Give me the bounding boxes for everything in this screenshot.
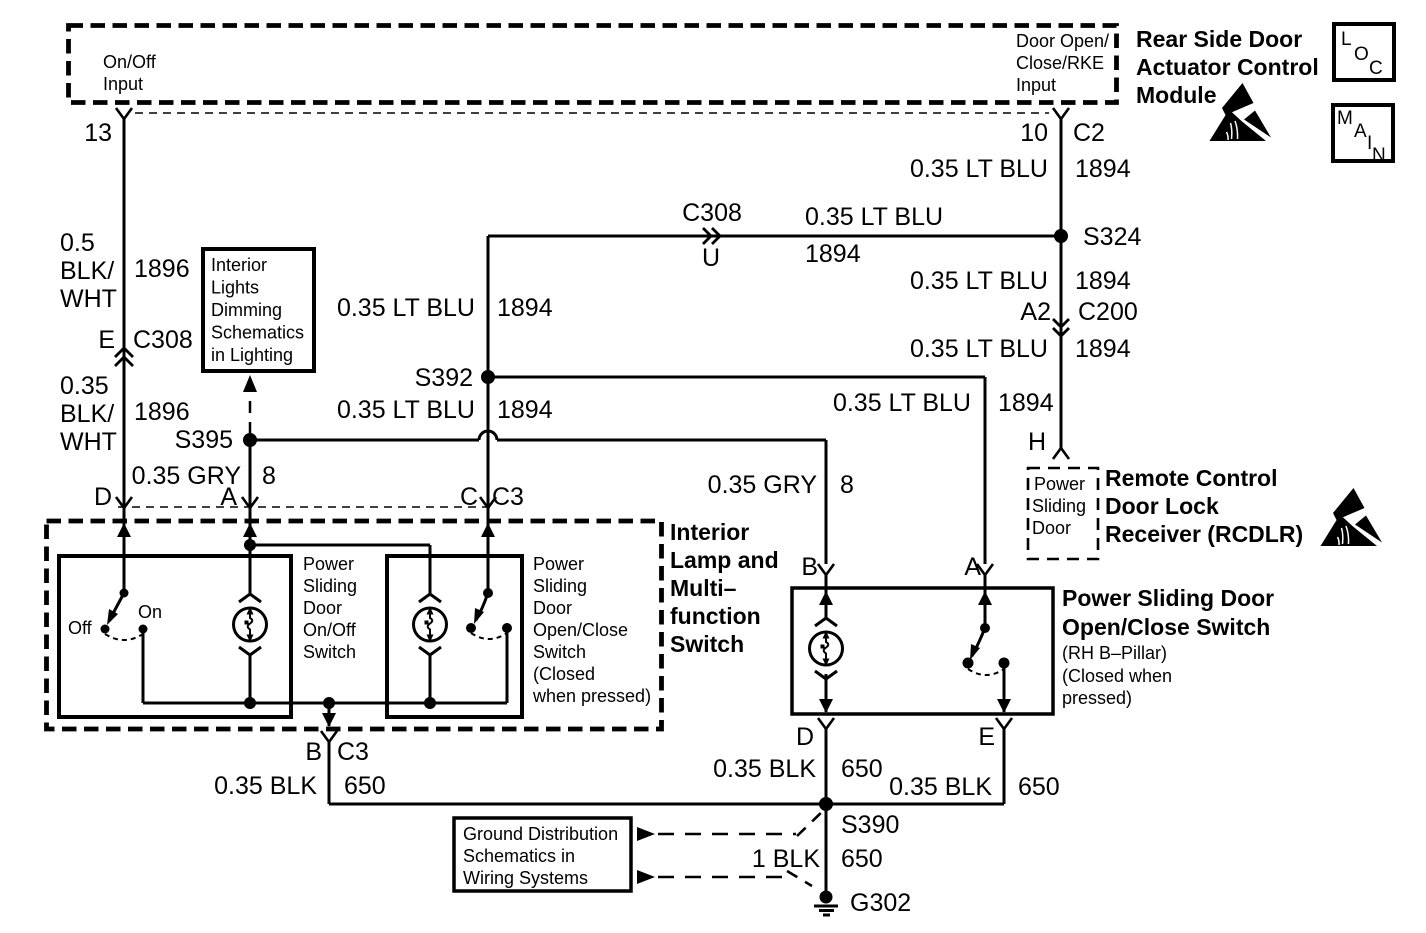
svg-text:0.35: 0.35 bbox=[60, 372, 109, 400]
svg-text:0.35 BLK: 0.35 BLK bbox=[713, 755, 816, 783]
svg-text:S390: S390 bbox=[841, 811, 899, 839]
svg-text:Receiver (RCDLR): Receiver (RCDLR) bbox=[1105, 521, 1303, 547]
svg-text:1894: 1894 bbox=[497, 294, 553, 322]
svg-text:Open/Close: Open/Close bbox=[533, 620, 628, 640]
svg-text:1896: 1896 bbox=[134, 255, 190, 283]
svg-text:On: On bbox=[138, 602, 162, 622]
svg-text:0.35 LT BLU: 0.35 LT BLU bbox=[805, 203, 943, 231]
svg-text:Door: Door bbox=[1032, 518, 1071, 538]
svg-text:0.35 LT BLU: 0.35 LT BLU bbox=[910, 155, 1048, 183]
svg-text:Ground Distribution: Ground Distribution bbox=[463, 824, 618, 844]
svg-text:O: O bbox=[1354, 44, 1369, 65]
svg-text:Switch: Switch bbox=[533, 642, 586, 662]
svg-text:C200: C200 bbox=[1078, 298, 1138, 326]
svg-text:1894: 1894 bbox=[1075, 335, 1131, 363]
svg-text:Door Lock: Door Lock bbox=[1105, 493, 1219, 519]
svg-text:WHT: WHT bbox=[60, 285, 117, 313]
svg-text:Interior: Interior bbox=[211, 255, 267, 275]
svg-text:C308: C308 bbox=[682, 199, 742, 227]
svg-text:0.35 LT BLU: 0.35 LT BLU bbox=[337, 294, 475, 322]
svg-text:Lamp and: Lamp and bbox=[670, 547, 779, 573]
svg-text:Power: Power bbox=[1034, 474, 1085, 494]
svg-text:650: 650 bbox=[841, 845, 883, 873]
svg-text:0.35 LT BLU: 0.35 LT BLU bbox=[910, 335, 1048, 363]
svg-text:1 BLK: 1 BLK bbox=[752, 845, 820, 873]
svg-text:Remote Control: Remote Control bbox=[1105, 465, 1278, 491]
svg-text:0.35 LT BLU: 0.35 LT BLU bbox=[910, 267, 1048, 295]
svg-text:8: 8 bbox=[262, 462, 276, 490]
svg-text:On/Off: On/Off bbox=[303, 620, 357, 640]
svg-text:C3: C3 bbox=[337, 738, 369, 766]
svg-text:G302: G302 bbox=[850, 889, 911, 917]
svg-text:Interior: Interior bbox=[670, 519, 749, 545]
svg-text:in Lighting: in Lighting bbox=[211, 345, 293, 365]
svg-text:S392: S392 bbox=[415, 364, 473, 392]
svg-text:C308: C308 bbox=[133, 326, 193, 354]
svg-text:(Closed when: (Closed when bbox=[1062, 666, 1172, 686]
svg-text:On/Off: On/Off bbox=[103, 52, 157, 72]
svg-text:A: A bbox=[220, 483, 237, 511]
svg-text:0.35 LT BLU: 0.35 LT BLU bbox=[337, 396, 475, 424]
svg-text:BLK/: BLK/ bbox=[60, 257, 114, 285]
svg-text:C3: C3 bbox=[492, 483, 524, 511]
svg-text:Open/Close Switch: Open/Close Switch bbox=[1062, 614, 1270, 640]
svg-text:E: E bbox=[978, 723, 995, 751]
svg-text:Door: Door bbox=[533, 598, 572, 618]
svg-text:Schematics: Schematics bbox=[211, 323, 304, 343]
svg-text:B: B bbox=[801, 553, 818, 581]
svg-text:Input: Input bbox=[103, 74, 143, 94]
svg-text:Wiring Systems: Wiring Systems bbox=[463, 868, 588, 888]
svg-text:650: 650 bbox=[344, 772, 386, 800]
svg-text:Actuator Control: Actuator Control bbox=[1136, 54, 1319, 80]
svg-text:Power: Power bbox=[303, 554, 354, 574]
svg-text:Multi–: Multi– bbox=[670, 575, 737, 601]
svg-text:(RH B–Pillar): (RH B–Pillar) bbox=[1062, 643, 1167, 663]
svg-text:0.35 GRY: 0.35 GRY bbox=[708, 471, 818, 499]
svg-text:Power: Power bbox=[533, 554, 584, 574]
svg-text:1894: 1894 bbox=[1075, 155, 1131, 183]
svg-text:N: N bbox=[1372, 145, 1386, 166]
svg-text:A: A bbox=[1354, 121, 1367, 142]
svg-text:650: 650 bbox=[841, 755, 883, 783]
svg-text:Module: Module bbox=[1136, 82, 1217, 108]
svg-text:Power Sliding Door: Power Sliding Door bbox=[1062, 585, 1274, 611]
svg-text:Rear Side Door: Rear Side Door bbox=[1136, 26, 1302, 52]
svg-text:1894: 1894 bbox=[998, 389, 1054, 417]
svg-text:when pressed): when pressed) bbox=[532, 686, 651, 706]
svg-text:S324: S324 bbox=[1083, 223, 1141, 251]
svg-text:B: B bbox=[305, 738, 322, 766]
svg-text:WHT: WHT bbox=[60, 428, 117, 456]
svg-text:BLK/: BLK/ bbox=[60, 400, 114, 428]
svg-text:function: function bbox=[670, 603, 761, 629]
svg-text:0.35 LT BLU: 0.35 LT BLU bbox=[833, 389, 971, 417]
svg-text:Sliding: Sliding bbox=[1032, 496, 1086, 516]
svg-text:D: D bbox=[796, 723, 814, 751]
svg-text:(Closed: (Closed bbox=[533, 664, 595, 684]
svg-text:1894: 1894 bbox=[805, 240, 861, 268]
svg-text:Dimming: Dimming bbox=[211, 300, 282, 320]
svg-text:M: M bbox=[1337, 108, 1353, 129]
svg-text:C: C bbox=[460, 483, 478, 511]
svg-text:0.35 BLK: 0.35 BLK bbox=[214, 772, 317, 800]
svg-text:Off: Off bbox=[68, 618, 93, 638]
svg-text:D: D bbox=[94, 483, 112, 511]
svg-text:10: 10 bbox=[1020, 119, 1048, 147]
svg-text:U: U bbox=[702, 244, 720, 272]
svg-text:Close/RKE: Close/RKE bbox=[1016, 53, 1104, 73]
svg-text:1894: 1894 bbox=[497, 396, 553, 424]
svg-text:E: E bbox=[98, 326, 115, 354]
svg-text:Switch: Switch bbox=[670, 631, 744, 657]
svg-text:C: C bbox=[1369, 58, 1383, 79]
svg-text:pressed): pressed) bbox=[1062, 688, 1132, 708]
svg-text:A: A bbox=[964, 553, 981, 581]
svg-text:13: 13 bbox=[84, 119, 112, 147]
svg-text:C2: C2 bbox=[1073, 119, 1105, 147]
svg-text:0.35 BLK: 0.35 BLK bbox=[889, 773, 992, 801]
svg-text:8: 8 bbox=[840, 471, 854, 499]
svg-text:0.5: 0.5 bbox=[60, 229, 95, 257]
svg-text:A2: A2 bbox=[1020, 298, 1051, 326]
svg-text:S395: S395 bbox=[175, 426, 233, 454]
svg-text:Door: Door bbox=[303, 598, 342, 618]
svg-text:1894: 1894 bbox=[1075, 267, 1131, 295]
svg-text:L: L bbox=[1341, 29, 1352, 50]
svg-text:Switch: Switch bbox=[303, 642, 356, 662]
svg-text:Schematics in: Schematics in bbox=[463, 846, 575, 866]
svg-text:Sliding: Sliding bbox=[533, 576, 587, 596]
svg-text:1896: 1896 bbox=[134, 398, 190, 426]
svg-text:H: H bbox=[1028, 428, 1046, 456]
svg-text:Input: Input bbox=[1016, 75, 1056, 95]
svg-text:650: 650 bbox=[1018, 773, 1060, 801]
svg-text:Lights: Lights bbox=[211, 278, 259, 298]
svg-text:Sliding: Sliding bbox=[303, 576, 357, 596]
svg-text:Door Open/: Door Open/ bbox=[1016, 31, 1109, 51]
